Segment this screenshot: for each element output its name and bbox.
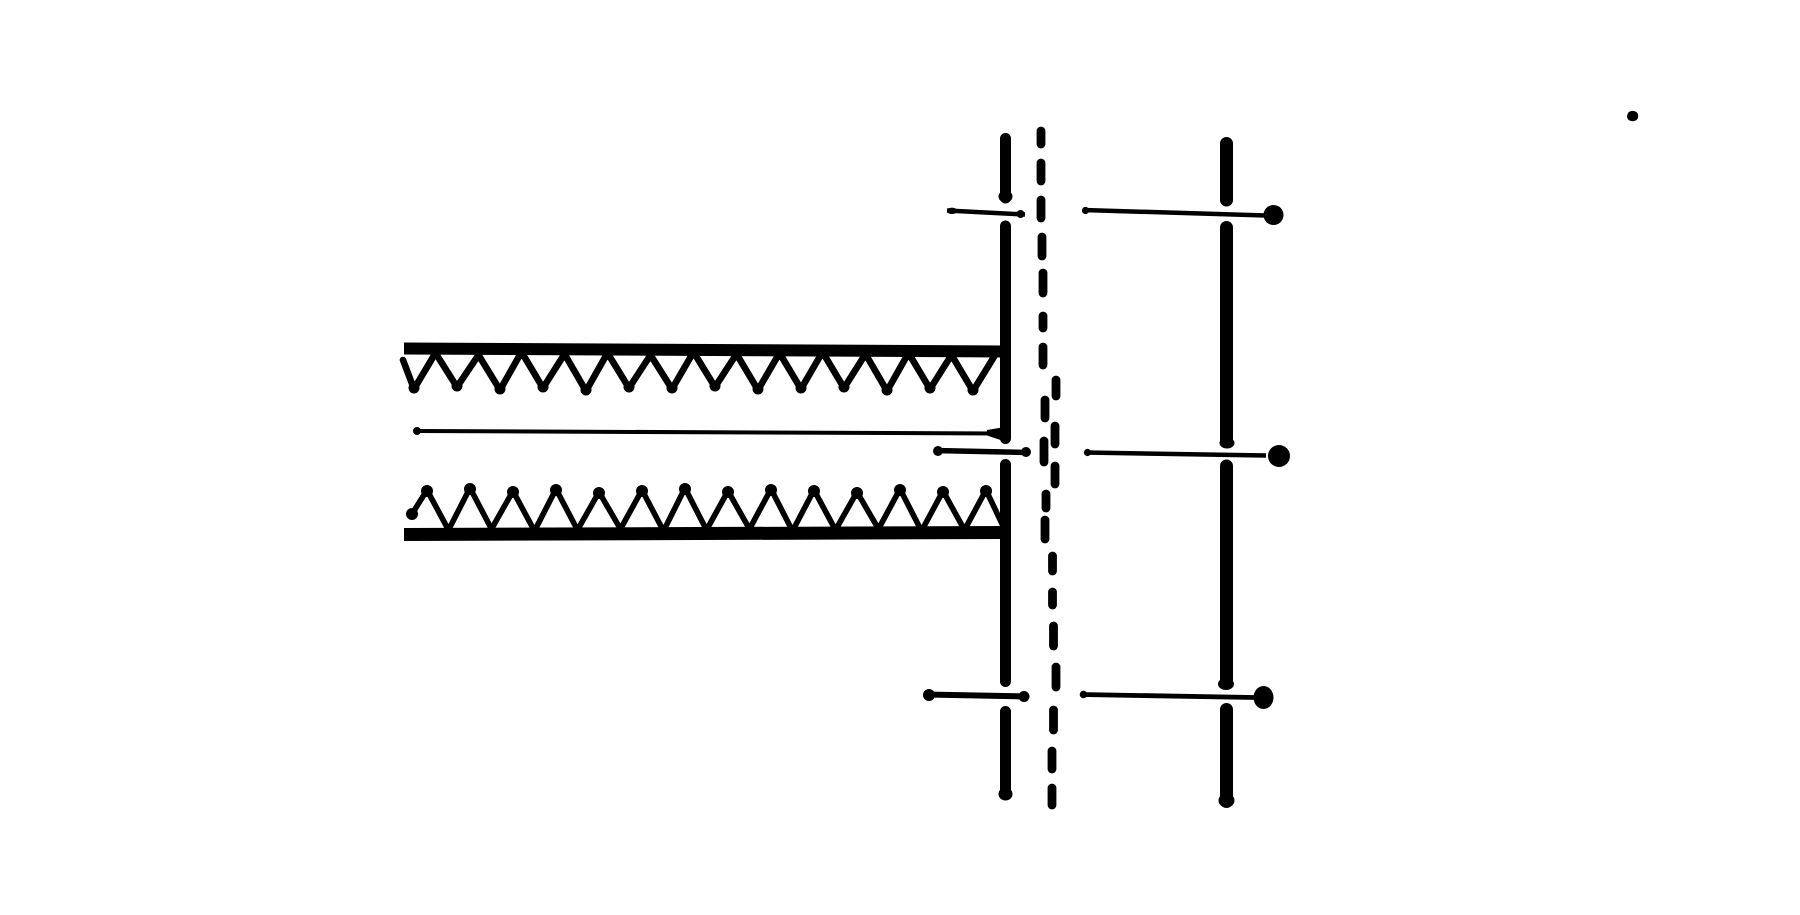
wire (middle lead-in, right segment) — [1084, 449, 1266, 456]
wire (bottom lead-in, left segment through wall) — [923, 689, 1030, 702]
ink blob at middle gap end of outer wall line — [1220, 438, 1235, 449]
lower toothed bar (radiator element, bottom) — [404, 483, 1007, 541]
ink blob at bottom end of outer wall line — [1219, 794, 1235, 808]
wire (bottom lead-in, right segment) — [1080, 691, 1254, 699]
wire (middle thin lead from radiator) — [413, 427, 1008, 443]
wire (top lead-in, right segment) — [1082, 207, 1266, 216]
ink blob above top gap of inner wall line — [999, 191, 1013, 203]
wire (middle lead-in, left segment through wall) — [933, 446, 1031, 457]
wall inner surface (solid vertical line, segmented at wire pass-throughs) — [1000, 139, 1011, 795]
ink blob at bottom end of inner wall line — [999, 788, 1013, 801]
wall center line (dashed vertical) — [1041, 131, 1056, 805]
ink speck (top right) — [1627, 111, 1638, 121]
binding post knob (top) — [1264, 205, 1284, 225]
wall outer surface (solid vertical line, segmented at wire pass-throughs) — [1220, 144, 1233, 802]
wire (top lead-in, left segment through wall) — [947, 208, 1025, 218]
upper toothed bar (radiator element, top) — [403, 343, 1007, 396]
ink blob at lower gap end of outer wall line — [1218, 678, 1234, 690]
binding post knob (bottom) — [1254, 686, 1274, 709]
binding post knob (middle) — [1268, 445, 1290, 467]
